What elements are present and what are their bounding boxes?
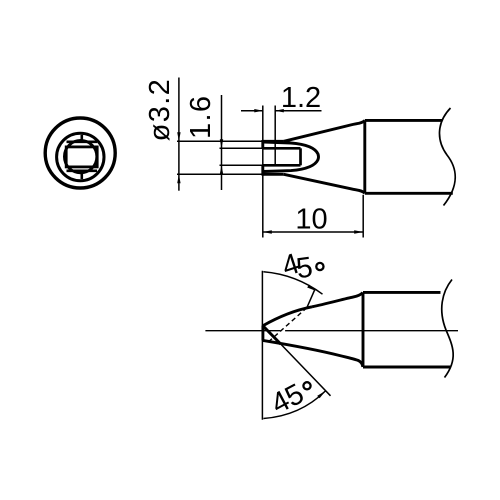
tip face top prong: [261, 140, 264, 148]
middle circle: [57, 133, 104, 180]
ext line tip bottom: [177, 173, 262, 175]
svg-text:5: 5: [294, 251, 314, 285]
bottom chord: [67, 170, 98, 173]
ext line slot top: [220, 147, 263, 149]
slot top line: [263, 147, 301, 150]
svg-text:ø3.2: ø3.2: [144, 78, 176, 142]
slot bottom line: [263, 164, 301, 167]
tip end face: [261, 326, 264, 341]
1.6 arrows: [220, 139, 223, 148]
groove rectangle: [66, 147, 97, 167]
1.2 dim line right: [275, 110, 322, 112]
bottom prong bottom edge: [263, 173, 284, 176]
lower 45 leg: [281, 344, 331, 396]
groove U curve: [264, 142, 319, 171]
10 dim line: [263, 231, 363, 233]
shank top edge: [365, 119, 442, 122]
top center stub: [81, 135, 84, 142]
shank bottom edge: [365, 192, 453, 195]
lower 45 arc: [263, 391, 325, 419]
upper arc arrow: [307, 285, 316, 291]
lower cone outline: [263, 340, 363, 367]
ext line slot bottom: [220, 164, 263, 166]
break line: [439, 108, 455, 206]
shank bottom edge: [363, 366, 451, 369]
centerline: [205, 330, 458, 332]
shank junction line: [363, 120, 366, 193]
svg-text:10: 10: [295, 204, 327, 236]
outer circle: [45, 118, 115, 188]
1.2 arrows: [254, 109, 263, 112]
upper flat face: [263, 307, 312, 326]
tip face bottom prong: [261, 165, 264, 175]
slot rect right edge: [299, 148, 302, 165]
1.2 dim line left: [241, 110, 263, 112]
inner circle: [64, 140, 96, 172]
ext line groove inner: [274, 106, 276, 166]
top prong top edge: [263, 140, 284, 143]
ext line face: [262, 106, 264, 238]
vertical reference line: [261, 271, 263, 420]
45 deg lower face: [263, 326, 281, 344]
ext line shank: [362, 195, 364, 238]
label 45 top: [278, 248, 323, 286]
break line: [442, 280, 453, 378]
shank junction line: [362, 292, 365, 367]
upper cone outline: [312, 293, 363, 307]
upper 45 arc: [263, 272, 322, 294]
1.6 dim line: [221, 95, 223, 190]
label 45 bottom: [266, 378, 311, 421]
lower arc arrow: [317, 391, 326, 399]
dia 3.2 arrows: [177, 132, 180, 141]
cone bottom outline: [284, 174, 365, 193]
10 arrows: [263, 230, 272, 233]
top chord: [67, 141, 98, 144]
dia 3.2 dim line: [178, 78, 180, 191]
svg-text:1.6: 1.6: [185, 95, 217, 140]
cone top outline: [284, 120, 365, 141]
svg-text:1.2: 1.2: [281, 82, 321, 114]
upper 45 leg: [307, 290, 315, 308]
shank top edge: [363, 291, 441, 294]
hidden groove line: [269, 308, 307, 342]
ext line tip top: [177, 140, 262, 142]
bottom center stub: [81, 171, 84, 179]
